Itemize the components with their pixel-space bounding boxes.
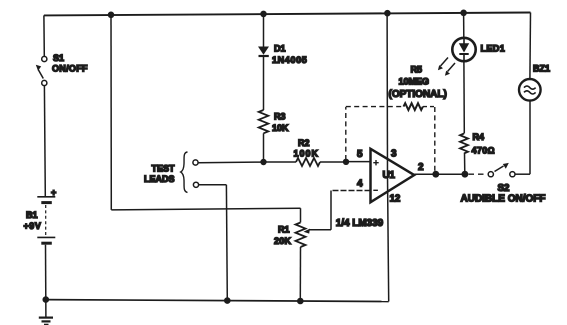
junction top rail / LED1 xyxy=(460,10,467,17)
op-amp minus sign xyxy=(373,189,378,191)
svg-text:3: 3 xyxy=(391,149,397,160)
svg-text:20K: 20K xyxy=(274,236,292,246)
wire battery to bottom rail xyxy=(45,245,47,300)
svg-text:R1: R1 xyxy=(278,225,290,235)
svg-text:R5: R5 xyxy=(411,65,423,75)
diode D1 xyxy=(258,47,269,57)
wire R3 to node xyxy=(263,133,265,162)
junction top rail / +V feed xyxy=(108,12,115,19)
svg-text:1/4 LM339: 1/4 LM339 xyxy=(336,218,384,229)
junction top rail / pin 3 xyxy=(384,10,391,17)
resistor R5 xyxy=(404,103,423,110)
svg-text:BZ1: BZ1 xyxy=(533,64,550,74)
wire +V feed horizontal to R1 xyxy=(111,208,300,210)
wire pin 12 (gnd) xyxy=(388,176,389,302)
svg-text:R4: R4 xyxy=(473,132,485,142)
svg-text:ON/OFF: ON/OFF xyxy=(52,64,88,74)
wire top rail to LED1 xyxy=(463,13,465,38)
junction test lead 2 / bottom rail xyxy=(224,297,231,304)
wiper arrow R1 xyxy=(304,229,310,234)
op-amp plus sign xyxy=(373,160,378,165)
svg-text:10MEG: 10MEG xyxy=(399,77,430,87)
wire R4 to output xyxy=(464,153,466,174)
svg-text:(OPTIONAL): (OPTIONAL) xyxy=(389,89,447,100)
junction output / R4 xyxy=(462,171,469,178)
svg-text:TEST: TEST xyxy=(152,164,176,174)
svg-text:S2: S2 xyxy=(498,183,510,194)
wire output to S2 (dashed) xyxy=(469,173,488,175)
junction R1 / bottom rail xyxy=(297,298,304,305)
svg-text:1N4005: 1N4005 xyxy=(272,55,307,65)
wire pin 4 horizontal xyxy=(331,190,371,192)
wire D1 to R3 xyxy=(263,57,265,110)
svg-text:LED1: LED1 xyxy=(481,44,506,54)
svg-text:R3: R3 xyxy=(274,112,286,122)
wire top rail to D1 xyxy=(263,14,265,47)
svg-text:100K: 100K xyxy=(294,149,320,159)
wire pin 5 lead xyxy=(346,161,371,163)
LED LED1 xyxy=(452,38,475,61)
wire +V feed vertical xyxy=(110,15,112,210)
svg-text:5: 5 xyxy=(357,149,363,160)
wire BZ1 top to rail xyxy=(529,13,532,80)
svg-text:D1: D1 xyxy=(274,44,286,54)
wire S1 to battery xyxy=(43,86,46,196)
wire R5 dashed top left xyxy=(346,106,403,108)
junction top rail / D1 xyxy=(260,11,267,18)
wire bottom rail xyxy=(46,300,389,302)
junction R3 / test lead net xyxy=(260,159,266,165)
op-amp U1 xyxy=(371,149,415,202)
junction R5 / pin 5 xyxy=(343,159,349,165)
svg-text:2: 2 xyxy=(418,162,424,173)
wire pin 3 (V+) xyxy=(386,13,388,175)
wire test lead 1 to node xyxy=(198,161,263,164)
terminal test lead 2 xyxy=(193,182,198,187)
svg-text:U1: U1 xyxy=(383,170,396,181)
wire wiper link xyxy=(309,229,331,231)
LED light arrow 1 xyxy=(438,58,448,71)
wire R2 to pin5 node xyxy=(320,161,346,163)
wire BZ1 bottom vertical xyxy=(529,101,531,175)
wire test lead 2 horizontal xyxy=(199,184,227,186)
wire R1 bottom lead xyxy=(299,247,301,301)
potentiometer R1 xyxy=(296,223,306,248)
junction battery / bottom rail xyxy=(43,296,50,303)
wire test lead 2 to ground rail xyxy=(225,185,228,301)
terminal test lead 1 xyxy=(193,160,198,165)
resistor R3 xyxy=(259,110,269,133)
wire op-amp output xyxy=(414,173,467,175)
svg-text:LEADS: LEADS xyxy=(144,174,175,184)
battery B1 xyxy=(37,197,55,243)
switch S2 xyxy=(488,163,515,177)
LED light arrow 2 xyxy=(445,63,455,76)
resistor R2 xyxy=(296,158,320,166)
wire R5 dashed top right xyxy=(423,106,435,108)
switch S1 xyxy=(36,56,47,85)
wire top rail xyxy=(44,13,531,16)
svg-text:4: 4 xyxy=(357,179,363,190)
resistor R4 xyxy=(460,134,468,154)
ground xyxy=(39,300,53,325)
wire node to R2 xyxy=(264,161,297,163)
brace test leads xyxy=(181,152,188,193)
svg-text:S1: S1 xyxy=(53,53,64,63)
svg-text:AUDIBLE ON/OFF: AUDIBLE ON/OFF xyxy=(461,194,546,205)
svg-text:470Ω: 470Ω xyxy=(472,146,495,156)
wire left rail upper (top rail to S1) xyxy=(43,15,45,56)
svg-text:12: 12 xyxy=(390,194,401,205)
svg-text:10K: 10K xyxy=(272,123,289,133)
junction output / R5 xyxy=(432,171,439,178)
wire R5 dashed left vertical xyxy=(345,107,347,160)
wire LED1 to R4 xyxy=(463,61,465,133)
svg-text:B1: B1 xyxy=(26,210,38,220)
svg-text:+: + xyxy=(51,188,56,198)
wire pin 4 vertical xyxy=(330,191,332,230)
wire R1 top lead xyxy=(300,208,302,222)
buzzer BZ1 xyxy=(519,79,541,101)
wire R5 dashed right vertical xyxy=(434,107,436,172)
wire S2 to BZ1 horizontal xyxy=(515,173,530,175)
svg-text:R2: R2 xyxy=(298,138,310,148)
svg-text:+9V: +9V xyxy=(24,221,42,231)
